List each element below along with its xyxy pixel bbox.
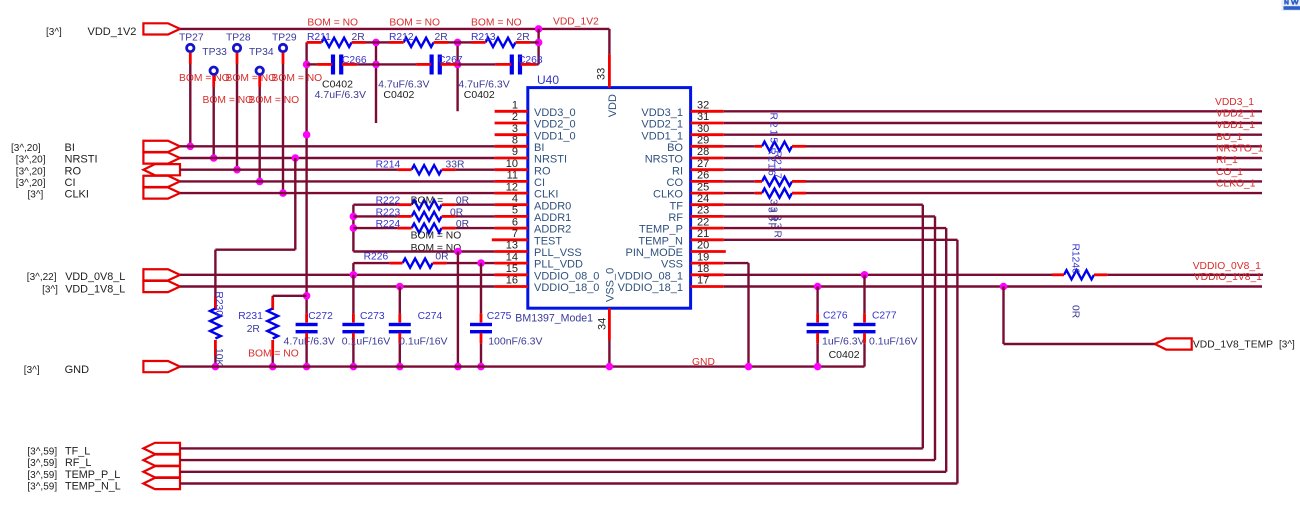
junction C272/GND (303, 363, 311, 371)
svg-text:CLKO: CLKO (653, 189, 683, 201)
wire VDD_1V8_L rail (180, 285, 495, 287)
svg-text:[3^,59]: [3^,59] (27, 470, 57, 481)
svg-text:2R: 2R (352, 32, 365, 43)
pin 32 VDD3_1 stub (691, 110, 724, 113)
port VDD_1V8_L (143, 281, 180, 292)
svg-text:27: 27 (697, 158, 709, 170)
svg-text:CI: CI (65, 177, 76, 189)
svg-text:1uF/6.3V: 1uF/6.3V (822, 335, 865, 347)
wire R226 left to VDD_0V8 rail (352, 263, 354, 275)
svg-text:VDD2_1: VDD2_1 (1216, 109, 1255, 120)
junction PLL_VSS/GND rail (454, 363, 462, 371)
junction VSS/GND rail (745, 363, 753, 371)
wire BO (left of R215) (724, 145, 755, 147)
svg-text:R224: R224 (376, 219, 401, 230)
svg-text:CLKI: CLKI (65, 189, 89, 201)
svg-text:29: 29 (697, 135, 709, 147)
wire VDD_1V8_TEMP horizontal (1004, 343, 1155, 345)
svg-text:NRSTI: NRSTI (65, 154, 98, 166)
svg-text:R226: R226 (364, 252, 389, 263)
svg-text:[3^]: [3^] (1279, 339, 1295, 350)
pin 23 RF stub (691, 215, 724, 218)
pin 27 RI stub (691, 168, 724, 171)
port VDD_1V8_TEMP (1155, 338, 1192, 349)
svg-text:13: 13 (506, 240, 518, 252)
svg-text:GND: GND (692, 357, 715, 368)
svg-text:TEMP_N: TEMP_N (638, 235, 683, 247)
wire TF (724, 203, 923, 205)
svg-text:[3^,59]: [3^,59] (27, 446, 57, 457)
svg-text:BO: BO (667, 142, 683, 154)
resistor R1246 (1064, 270, 1094, 279)
resistor R215 (762, 142, 792, 151)
svg-text:2R: 2R (517, 32, 530, 43)
svg-text:VDD3_0: VDD3_0 (534, 107, 576, 119)
svg-text:BOM = NO: BOM = NO (411, 231, 462, 242)
svg-text:19: 19 (697, 251, 709, 263)
wire CO (left of R216) (724, 180, 755, 182)
junction C274/GND (396, 363, 404, 371)
svg-text:4: 4 (512, 193, 518, 205)
wire VDD1_0 vertical node (305, 42, 307, 313)
svg-text:BOM = NO: BOM = NO (471, 18, 522, 29)
junction TP33/NRSTI (210, 154, 218, 162)
svg-text:VSS: VSS (661, 259, 683, 271)
svg-text:TP28: TP28 (226, 33, 251, 44)
wire VDD1_1 (724, 133, 1262, 135)
svg-text:16: 16 (506, 275, 518, 287)
wire VDD2_0 vertical node (375, 42, 377, 123)
svg-text:28: 28 (697, 146, 709, 158)
pin 15 VDDIO_08_0 stub (495, 273, 528, 276)
svg-text:R212: R212 (389, 32, 414, 43)
junction PLL_VDD/C275 branch (477, 259, 485, 267)
svg-text:[3^,20]: [3^,20] (16, 166, 46, 177)
svg-text:9: 9 (512, 146, 518, 158)
op-amp U40 BM1397 body (528, 88, 691, 309)
wire VDD_1V2 rail (180, 28, 609, 30)
svg-text:7: 7 (512, 228, 518, 240)
svg-text:R215: R215 (768, 113, 779, 146)
svg-text:0R: 0R (450, 207, 463, 218)
port RF_L (143, 455, 180, 466)
svg-text:VDD: VDD (607, 94, 619, 117)
svg-text:RF_L: RF_L (65, 457, 91, 469)
svg-text:0R: 0R (456, 196, 469, 207)
testpoint TP28 (233, 44, 240, 51)
port CLKI (143, 187, 180, 198)
svg-text:BOM = NO: BOM = NO (249, 95, 300, 106)
svg-text:R213: R213 (471, 32, 496, 43)
svg-text:R230: R230 (213, 291, 224, 316)
svg-text:14: 14 (506, 251, 518, 263)
pin 10 RO stub (495, 168, 528, 171)
junction R231/GND (269, 363, 277, 371)
svg-text:R1246: R1246 (1070, 244, 1081, 275)
pin 8 BI stub (495, 145, 528, 148)
svg-text:TP34: TP34 (249, 47, 274, 58)
pin 14 PLL_VDD stub (495, 262, 528, 265)
junction C273/GND (350, 363, 358, 371)
svg-text:11: 11 (507, 170, 518, 182)
port VDD_0V8_L (143, 269, 180, 280)
svg-text:C272: C272 (308, 311, 333, 322)
port TF_L (143, 443, 180, 454)
svg-text:18: 18 (697, 263, 709, 275)
wire VDD_0V8_L rail (180, 274, 495, 276)
svg-text:20: 20 (697, 240, 709, 252)
svg-text:VSS_0: VSS_0 (605, 268, 617, 302)
wire NRSTI drop (294, 158, 296, 250)
wire RF_L (180, 459, 935, 461)
svg-text:0.1uF/16V: 0.1uF/16V (869, 335, 917, 347)
resistor R214 (412, 165, 442, 174)
junction C276/GND (814, 363, 822, 371)
svg-text:TP29: TP29 (272, 33, 297, 44)
svg-text:C276: C276 (823, 311, 848, 322)
wire TEMP_N (724, 239, 958, 241)
capacitor C272 (305, 313, 308, 322)
svg-text:C275: C275 (487, 311, 512, 322)
svg-text:VDD_1V8_L: VDD_1V8_L (65, 284, 125, 296)
junction VDD1_0/pin3 wire (303, 131, 311, 139)
junction VDD2_0/R row (372, 39, 380, 47)
wire ADDR bus vertical (352, 205, 354, 252)
wire VDDIO_0V8_1 (1107, 274, 1263, 276)
capacitor C266 (331, 55, 335, 75)
junction R213/C268 right (535, 39, 543, 47)
wire VDD_1V2 branch vertical (537, 29, 539, 65)
junction VDD1_0/C266 (303, 61, 311, 69)
svg-text:R231: R231 (238, 311, 263, 322)
svg-text:VDDIO_18_0: VDDIO_18_0 (534, 282, 599, 294)
svg-text:33R: 33R (446, 160, 465, 171)
junction VSS_0/GND (606, 363, 614, 371)
wire TEMP_P (724, 227, 946, 229)
svg-text:VDD3_1: VDD3_1 (1215, 97, 1254, 108)
resistor R223 (353, 215, 397, 217)
junction VDDIO_18_1/C276 (814, 283, 822, 291)
junction bus/R224 (350, 224, 358, 232)
testpoint TP33 (210, 67, 217, 74)
port NRSTI (143, 152, 180, 163)
capacitor C276 (816, 287, 818, 314)
svg-text:TEMP_P: TEMP_P (639, 224, 683, 236)
wire CO_1 (806, 180, 1262, 182)
wire NRSTI (180, 157, 495, 159)
svg-text:PLL_VSS: PLL_VSS (534, 247, 582, 259)
svg-text:[3^]: [3^] (42, 285, 58, 296)
svg-text:CI: CI (534, 177, 545, 189)
svg-text:BOM = NO: BOM = NO (248, 349, 299, 360)
svg-text:BOM = NO: BOM = NO (226, 73, 277, 84)
port CI (143, 176, 180, 187)
svg-text:RI: RI (672, 165, 683, 177)
svg-text:VDD1_0: VDD1_0 (534, 130, 576, 142)
svg-text:VDD_1V2: VDD_1V2 (553, 17, 599, 28)
pin 6 ADDR2 stub (495, 227, 528, 230)
svg-text:BO_1: BO_1 (1216, 132, 1243, 143)
pin 26 CO stub (691, 180, 724, 183)
svg-text:24: 24 (697, 193, 709, 205)
wire RO (left of R214) (180, 168, 398, 170)
junction C275/GND (477, 363, 485, 371)
pin 20 PIN_MODE stub (691, 250, 726, 253)
svg-text:BI: BI (65, 142, 75, 154)
svg-text:RO: RO (534, 165, 551, 177)
wire NRSTO_1 (724, 157, 1262, 159)
wire NRSTI jog left (215, 248, 295, 250)
resistor R230 (214, 298, 217, 311)
svg-text:15: 15 (506, 263, 518, 275)
svg-text:TEMP_N_L: TEMP_N_L (65, 481, 121, 493)
svg-text:R211: R211 (307, 32, 331, 43)
port RO (143, 164, 180, 175)
svg-text:CLKI: CLKI (534, 189, 558, 201)
svg-text:NRSTI: NRSTI (534, 154, 567, 166)
pin 21 TEMP_N stub (691, 238, 724, 241)
wire VDD_1V8_TEMP vertical (1002, 287, 1004, 345)
wire CI (180, 180, 495, 182)
junction NRSTI/R230 branch (292, 154, 300, 162)
wire RO (right of R214) (456, 168, 495, 170)
svg-text:[3^,22]: [3^,22] (27, 272, 57, 283)
pin 13 PLL_VSS stub (495, 250, 528, 253)
svg-text:VDD2_1: VDD2_1 (641, 119, 683, 131)
svg-text:TP33: TP33 (202, 47, 227, 58)
svg-text:VDD2_0: VDD2_0 (534, 119, 576, 131)
capacitor C273 (352, 275, 354, 314)
wire TEMP_P vertical (945, 228, 947, 472)
wire VDD3_1 (724, 110, 1262, 112)
svg-text:[3^,59]: [3^,59] (27, 482, 57, 493)
svg-text:VDDIO_18_1: VDDIO_18_1 (618, 282, 683, 294)
wire RI_1 (724, 168, 1262, 170)
svg-text:VDDIO_08_1: VDDIO_08_1 (618, 270, 683, 282)
svg-text:4.7uF/6.3V: 4.7uF/6.3V (315, 89, 366, 101)
pin 33 VDD stub (608, 54, 611, 87)
svg-text:[3^]: [3^] (28, 190, 44, 201)
junction TP28/RO (233, 166, 241, 174)
svg-text:CO_1: CO_1 (1216, 167, 1243, 178)
pin 11 CI stub (495, 180, 528, 183)
junction VDD2_0/C row (372, 61, 380, 69)
pin 28 NRSTO stub (691, 157, 724, 160)
pin 34 VSS_0 stub (608, 308, 611, 340)
junction VDD3_0/C row (454, 61, 462, 69)
resistor R216 (762, 177, 792, 186)
port TEMP_P_L (143, 466, 180, 477)
svg-text:C266: C266 (342, 55, 367, 66)
port GND (143, 361, 180, 372)
svg-text:0R: 0R (435, 252, 448, 263)
junction TP34/CI (256, 178, 264, 186)
pin 16 VDDIO_18_0 stub (495, 285, 528, 288)
svg-text:31: 31 (697, 111, 709, 123)
wire RF (724, 215, 935, 217)
svg-text:BOM = NO: BOM = NO (179, 73, 230, 84)
testpoint TP27 (187, 44, 194, 51)
svg-text:C0402: C0402 (464, 89, 495, 101)
svg-text:ADDR1: ADDR1 (534, 212, 571, 224)
wire CLKO (left of R217) (724, 192, 755, 194)
svg-text:0.1uF/16V: 0.1uF/16V (342, 335, 390, 347)
capacitor C275 (480, 263, 482, 313)
testpoint TP29 (279, 44, 286, 51)
svg-text:NRSTO_1: NRSTO_1 (1216, 144, 1264, 155)
svg-text:BOM = NO: BOM = NO (272, 73, 323, 84)
svg-text:32: 32 (697, 100, 709, 112)
resistor R211 (322, 38, 352, 47)
capacitor C277 (863, 275, 865, 314)
svg-text:TEMP_P_L: TEMP_P_L (65, 469, 120, 481)
svg-text:VDDIO_08_0: VDDIO_08_0 (534, 270, 599, 282)
svg-text:RO: RO (65, 165, 82, 177)
svg-text:CO: CO (667, 177, 684, 189)
resistor R212 (404, 38, 434, 47)
svg-text:VDD_1V2: VDD_1V2 (88, 26, 137, 38)
pin 5 ADDR1 stub (495, 215, 528, 218)
junction R230/GND (212, 363, 220, 371)
svg-text:VDDIO_0V8_1: VDDIO_0V8_1 (1193, 261, 1261, 272)
svg-text:30: 30 (697, 123, 709, 135)
junction TP29/CLKI (279, 189, 287, 197)
svg-text:PLL_VDD: PLL_VDD (534, 259, 583, 271)
svg-text:NRSTO: NRSTO (645, 154, 684, 166)
pin 30 VDD1_1 stub (691, 133, 724, 136)
svg-text:VDD_0V8_L: VDD_0V8_L (65, 271, 125, 283)
svg-text:TF_L: TF_L (65, 445, 90, 457)
junction VDD_1V2/R213 branch (535, 25, 543, 33)
svg-text:1: 1 (512, 100, 518, 112)
svg-text:TEST: TEST (534, 235, 562, 247)
svg-text:100nF/6.3V: 100nF/6.3V (488, 335, 542, 347)
junction TP27/BI (187, 143, 195, 151)
wire PLL_VSS to GND vertical (457, 252, 459, 367)
svg-text:[3^,59]: [3^,59] (27, 458, 57, 469)
pin 22 TEMP_P stub (691, 227, 724, 230)
testpoint TP34 (256, 67, 263, 74)
junction bus/R223 (350, 213, 358, 221)
svg-text:C277: C277 (872, 311, 897, 322)
svg-text:PIN_MODE: PIN_MODE (626, 247, 683, 259)
svg-text:R223: R223 (376, 207, 401, 218)
svg-text:5: 5 (512, 205, 518, 217)
svg-text:ADDR2: ADDR2 (534, 224, 571, 236)
svg-text:C0402: C0402 (383, 89, 414, 101)
wire VDD2_1 (724, 122, 1262, 124)
pin 17 VDDIO_18_1 stub (691, 285, 724, 288)
svg-text:[3^,20]: [3^,20] (11, 143, 41, 154)
wire BO_1 (806, 145, 1262, 147)
wire pin34 to GND (608, 340, 610, 367)
svg-text:C0402: C0402 (829, 349, 860, 361)
wire CLKI (180, 192, 495, 194)
svg-text:RI_1: RI_1 (1216, 155, 1238, 166)
resistor R217 (762, 189, 792, 198)
svg-text:23: 23 (697, 205, 709, 217)
port VDD_1V2 (143, 23, 180, 34)
junction VDDIO_18_1/TEMP branch (1000, 283, 1008, 291)
pin 24 TF stub (691, 203, 724, 206)
svg-text:R222: R222 (376, 196, 401, 207)
svg-text:0R: 0R (1070, 305, 1081, 318)
svg-text:BM1397_Mode1: BM1397_Mode1 (515, 313, 593, 325)
svg-text:R217: R217 (772, 151, 783, 180)
svg-text:21: 21 (697, 228, 709, 240)
svg-text:3: 3 (512, 123, 518, 135)
pin 4 ADDR0 stub (495, 203, 528, 206)
wire VDD3_0 vertical node (456, 42, 458, 111)
wire TF_L (180, 447, 923, 449)
svg-text:ADDR0: ADDR0 (534, 200, 571, 212)
svg-text:TF: TF (670, 200, 684, 212)
capacitor C267 (430, 55, 434, 75)
resistor R231 (273, 295, 307, 297)
svg-text:BI: BI (534, 142, 544, 154)
svg-text:BOM = NO: BOM = NO (203, 95, 254, 106)
junction VDD1_0/R231 branch (303, 292, 311, 300)
svg-text:33: 33 (596, 68, 608, 80)
junction VDDIO_08_1/C277 (861, 271, 869, 279)
svg-text:BOM =: BOM = (411, 196, 444, 207)
wire PLL_VSS row (353, 250, 494, 252)
pin 2 VDD2_0 stub (495, 122, 528, 125)
pin 9 NRSTI stub (495, 157, 528, 160)
port TEMP_N_L (143, 478, 180, 489)
pin 3 VDD1_0 stub (495, 133, 528, 136)
svg-text:VDD1_1: VDD1_1 (1216, 120, 1255, 131)
svg-text:34: 34 (597, 318, 609, 330)
pin 31 VDD2_1 stub (691, 122, 724, 125)
svg-text:2: 2 (512, 111, 518, 123)
svg-text:22: 22 (697, 216, 709, 228)
wire TF vertical (922, 205, 924, 449)
svg-text:25: 25 (697, 181, 709, 193)
svg-text:R214: R214 (376, 160, 401, 171)
pin 19 VSS stub (691, 262, 724, 265)
svg-text:[3^]: [3^] (24, 365, 40, 376)
pin 12 CLKI stub (495, 192, 528, 195)
junction VDD3_0/R row (454, 39, 462, 47)
wire RF vertical (934, 216, 936, 460)
watermark icon top-right (1282, 0, 1300, 11)
svg-text:U40: U40 (537, 73, 559, 87)
svg-text:CLKO_1: CLKO_1 (1216, 179, 1256, 190)
wire VSS to GND (724, 262, 749, 264)
wire TEMP_P_L (180, 471, 946, 473)
svg-text:6: 6 (512, 216, 518, 228)
resistor R213 (486, 38, 516, 47)
svg-text:TP27: TP27 (179, 33, 204, 44)
capacitor C274 (399, 287, 401, 314)
svg-text:[3^,20]: [3^,20] (16, 155, 46, 166)
svg-text:BOM = NO: BOM = NO (389, 18, 440, 29)
pin 7 TEST stub (492, 238, 528, 241)
svg-text:2R: 2R (247, 324, 260, 335)
pin 18 VDDIO_08_1 stub (691, 273, 724, 276)
wire TEMP_N vertical (956, 240, 958, 484)
junction VDD_1V8/C274 (396, 283, 404, 291)
junction PLL_VSS/GND branch (454, 248, 462, 256)
wire GND rail (180, 365, 865, 367)
resistor R226 (353, 262, 389, 264)
svg-text:BOM = NO: BOM = NO (307, 18, 358, 29)
svg-text:0.1uF/16V: 0.1uF/16V (399, 335, 447, 347)
port BI (143, 141, 180, 152)
wire down to R230 (214, 250, 216, 298)
svg-text:[3^,20]: [3^,20] (16, 178, 46, 189)
